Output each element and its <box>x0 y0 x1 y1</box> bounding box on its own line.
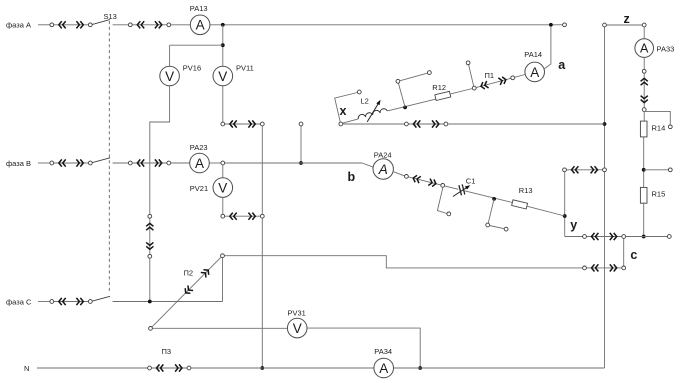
terminal J2b <box>428 71 432 75</box>
svg-text:PV21: PV21 <box>190 184 208 193</box>
wire tee to PV16 <box>170 44 223 46</box>
resistor R12 <box>435 91 451 100</box>
svg-text:PA33: PA33 <box>657 44 675 53</box>
wire connector to C1 <box>445 186 459 189</box>
svg-text:П2: П2 <box>184 269 194 278</box>
terminal x node <box>339 122 343 126</box>
wire PV31 to N <box>306 328 420 368</box>
ammeter PA34 <box>374 358 394 378</box>
wire L2 to R12 <box>387 99 435 111</box>
inductor L2 <box>358 109 387 119</box>
svg-text:A: A <box>196 18 205 33</box>
dashed separation line for S13 <box>108 21 110 291</box>
terminal PV21 tap <box>221 161 225 165</box>
terminal R14 tap <box>668 125 672 129</box>
connector П1 (diagonal) <box>474 78 513 88</box>
svg-text:PA34: PA34 <box>374 347 392 356</box>
svg-text:a: a <box>558 58 566 72</box>
connector X-y (to rail) <box>565 169 605 171</box>
terminal z left <box>603 23 607 27</box>
node: junction at PA13 output <box>221 23 225 27</box>
wire c-line to terminal <box>626 236 668 238</box>
wire PV11 down <box>222 86 224 122</box>
wire y drop <box>564 172 566 237</box>
wire П2 bottom to PV31 <box>152 327 288 329</box>
wire z link <box>606 24 642 26</box>
node: junction on phase B <box>299 161 303 165</box>
node: junction rail & mid bus <box>603 122 607 126</box>
wire down from phase A to voltmeters <box>222 25 224 67</box>
L2 variability arrow <box>367 102 379 122</box>
svg-text:c: c <box>630 248 637 262</box>
connector X-A2 <box>130 24 169 26</box>
terminal J2a <box>396 79 400 83</box>
connector X-33 (vertical) <box>643 71 645 109</box>
wire x to connector <box>343 123 405 125</box>
svg-text:C1: C1 <box>466 176 476 185</box>
svg-text:V: V <box>218 181 227 196</box>
svg-text:N: N <box>24 364 29 373</box>
wire drop to phase C <box>149 258 151 301</box>
voltmeter PV31 <box>287 318 307 338</box>
voltmeter PV16 <box>160 66 180 86</box>
wire П1 to PA14 <box>515 75 526 78</box>
svg-text:П3: П3 <box>162 347 172 356</box>
jumper J3 to П1 <box>469 65 474 87</box>
wire connector to rail <box>448 123 605 125</box>
wire tap down to PV21 <box>222 165 224 178</box>
wire PV21 down <box>222 197 224 214</box>
connector X-24 (diagonal) <box>406 176 442 185</box>
terminal tap circle <box>299 122 303 126</box>
terminal J1 <box>357 90 361 94</box>
svg-text:фаза С: фаза С <box>6 298 32 307</box>
C1 variability arrow <box>453 187 468 197</box>
connector П2 (diagonal) <box>151 256 223 329</box>
terminal end of phase A <box>563 23 567 27</box>
svg-text:L2: L2 <box>361 96 369 105</box>
wire to PA23 <box>171 162 190 164</box>
wire long vertical to N <box>261 126 263 368</box>
connector X-A1 <box>52 24 91 26</box>
wire mid tap <box>644 169 669 171</box>
wire x to L2 <box>342 119 358 123</box>
svg-text:П1: П1 <box>485 71 495 80</box>
node: junction on N line <box>260 366 264 370</box>
wire to R14 <box>643 112 645 122</box>
ammeter PA33 <box>635 39 654 58</box>
terminal mid tap <box>668 168 672 172</box>
connector X-21 <box>223 215 262 217</box>
svg-text:A: A <box>378 162 388 177</box>
jumper J5 drop <box>488 199 494 223</box>
ammeter PA13 <box>190 15 210 35</box>
wire N lead-in <box>37 367 148 369</box>
wire between c connectors <box>623 238 625 266</box>
terminal c-line end <box>667 235 671 239</box>
svg-text:A: A <box>530 65 539 80</box>
connector X-c2 <box>585 267 624 269</box>
jumper J1 from x <box>335 93 358 123</box>
svg-text:PV16: PV16 <box>183 63 201 72</box>
voltmeter PV11 <box>213 66 233 86</box>
svg-text:R13: R13 <box>519 186 533 195</box>
resistor R14 <box>640 121 647 137</box>
wire R12 to П1 <box>450 89 472 95</box>
node: junction between R14 R15 <box>642 168 646 172</box>
svg-text:PA14: PA14 <box>524 50 542 59</box>
connector X-16 (vertical) <box>149 216 151 256</box>
terminal J5a <box>486 223 490 227</box>
connector X-C1 <box>52 301 91 303</box>
wire PA14 up to phase A <box>544 27 551 69</box>
jumper J4 drop <box>437 187 447 213</box>
jumper J2 link <box>400 73 428 81</box>
svg-text:z: z <box>624 12 630 26</box>
ammeter PA24 <box>373 159 393 179</box>
wire R15 down <box>643 202 645 236</box>
capacitor C1 plate 2 <box>462 184 465 194</box>
svg-text:b: b <box>348 170 356 184</box>
node: junction to PA14 branch <box>549 23 553 27</box>
switch S13 pole C blade <box>92 296 110 301</box>
wire phase C after switch <box>113 301 223 303</box>
svg-text:V: V <box>218 69 227 84</box>
wire R13 to y <box>527 206 565 216</box>
svg-text:PA13: PA13 <box>190 4 208 13</box>
svg-text:R15: R15 <box>652 190 666 199</box>
svg-text:PV11: PV11 <box>236 63 254 72</box>
svg-text:PV31: PV31 <box>288 309 306 318</box>
wire N bus <box>191 367 374 369</box>
connector П3 <box>150 367 190 369</box>
svg-text:y: y <box>570 218 577 232</box>
node: PV16 tee <box>221 43 225 47</box>
wire R14 top tap <box>644 111 670 125</box>
wire phase C up to П2 <box>222 258 224 302</box>
node: junction on c-line <box>642 235 646 239</box>
connector X-B2 <box>130 162 169 164</box>
wire phase A bus <box>210 24 549 26</box>
jumper J5 link <box>490 226 505 229</box>
wire tap to phase B <box>300 126 302 163</box>
node: y junction <box>563 214 567 218</box>
wire into c connector <box>565 236 583 238</box>
node: C1 tap junction <box>492 197 496 201</box>
connector X-B1 <box>52 162 91 164</box>
wire phase A lead-in <box>38 24 50 26</box>
switch S13 pole B blade <box>92 158 110 163</box>
wire phase B after switch <box>113 162 129 164</box>
wire phase B bus <box>209 162 221 164</box>
svg-text:x: x <box>340 104 347 118</box>
voltmeter PV21 <box>213 178 233 198</box>
svg-text:фаза В: фаза В <box>6 159 31 168</box>
wire phase A after switch <box>113 24 129 26</box>
node: junction PV16 drop <box>148 300 152 304</box>
resistor R13 <box>512 200 528 209</box>
wire phase C lead-in <box>38 301 50 303</box>
node: junction PV31 on N <box>418 366 422 370</box>
connector X-x <box>406 123 446 125</box>
node: L2 tap junction <box>403 106 407 110</box>
capacitor C1 plate 1 <box>459 185 462 195</box>
switch S13 pole A blade <box>92 20 110 25</box>
ammeter PA23 <box>190 153 210 173</box>
ammeter PA14 <box>525 62 545 82</box>
svg-text:PA23: PA23 <box>190 143 208 152</box>
connector X-11 <box>223 123 262 125</box>
wire to PA33 <box>643 27 645 39</box>
resistor R15 <box>640 187 647 203</box>
svg-text:R14: R14 <box>652 124 666 133</box>
svg-text:A: A <box>195 156 204 171</box>
connector X-c1 <box>585 236 624 238</box>
wire П2 top to c-line <box>224 256 582 268</box>
svg-text:V: V <box>293 321 302 336</box>
wire to PA13 <box>171 24 191 26</box>
wire phase B lead-in <box>38 162 50 164</box>
terminal J5b <box>504 227 508 231</box>
terminal J3 <box>466 61 470 65</box>
wire PA24 to connector <box>393 172 405 176</box>
jumper J2 from L2 tap <box>398 83 405 107</box>
wire slope into PA24 <box>362 163 373 167</box>
wire PV16 to left drop <box>150 86 170 215</box>
svg-text:фаза А: фаза А <box>6 21 31 30</box>
wire PA33 down <box>643 57 645 69</box>
svg-text:S13: S13 <box>104 12 117 21</box>
svg-text:V: V <box>165 69 174 84</box>
terminal z right <box>642 23 646 27</box>
svg-text:A: A <box>640 42 649 56</box>
wire C1 to R13 <box>465 191 513 203</box>
wire R14 to R15 <box>643 137 645 188</box>
svg-text:A: A <box>379 361 388 376</box>
wire right rail <box>604 27 606 368</box>
svg-text:R12: R12 <box>432 83 446 92</box>
svg-text:PA24: PA24 <box>374 151 392 160</box>
terminal J4 <box>447 212 451 216</box>
